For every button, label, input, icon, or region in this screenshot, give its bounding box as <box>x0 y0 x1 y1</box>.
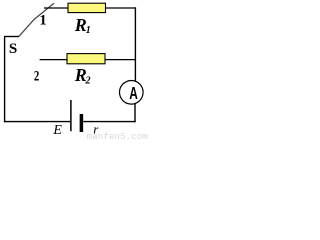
svg-text:1: 1 <box>86 25 91 36</box>
resistor R2 <box>67 54 105 64</box>
battery E positive plate (long) <box>70 100 72 131</box>
wire: ammeter to bottom rail <box>134 104 136 122</box>
wire: top branch, contact 1 to R1 <box>44 7 69 9</box>
svg-text:E: E <box>52 123 62 138</box>
wire: left vertical rail <box>4 37 6 123</box>
label 2 (contact 2) <box>34 67 39 84</box>
switch S lever (open blade) <box>19 3 54 36</box>
wire: right vertical rail <box>134 7 136 81</box>
svg-text:A: A <box>129 84 138 104</box>
wire: bottom rail right segment <box>83 121 136 123</box>
resistor R1 <box>68 3 106 12</box>
svg-text:2: 2 <box>34 67 39 84</box>
battery negative plate (short thick) <box>80 114 84 132</box>
wire: R2 to right rail <box>105 59 136 61</box>
svg-text:2: 2 <box>85 76 91 87</box>
wire: bottom rail left segment <box>4 121 71 123</box>
svg-text:S: S <box>9 41 17 57</box>
wire: R1 to right rail <box>106 7 137 9</box>
svg-text:manfen5.com: manfen5.com <box>87 131 149 140</box>
ammeter A <box>120 81 144 105</box>
wire: R2 branch, contact 2 to R2 <box>40 59 68 61</box>
wire: switch pivot stub <box>4 36 19 38</box>
svg-text:1: 1 <box>39 13 47 29</box>
label A <box>129 84 138 104</box>
